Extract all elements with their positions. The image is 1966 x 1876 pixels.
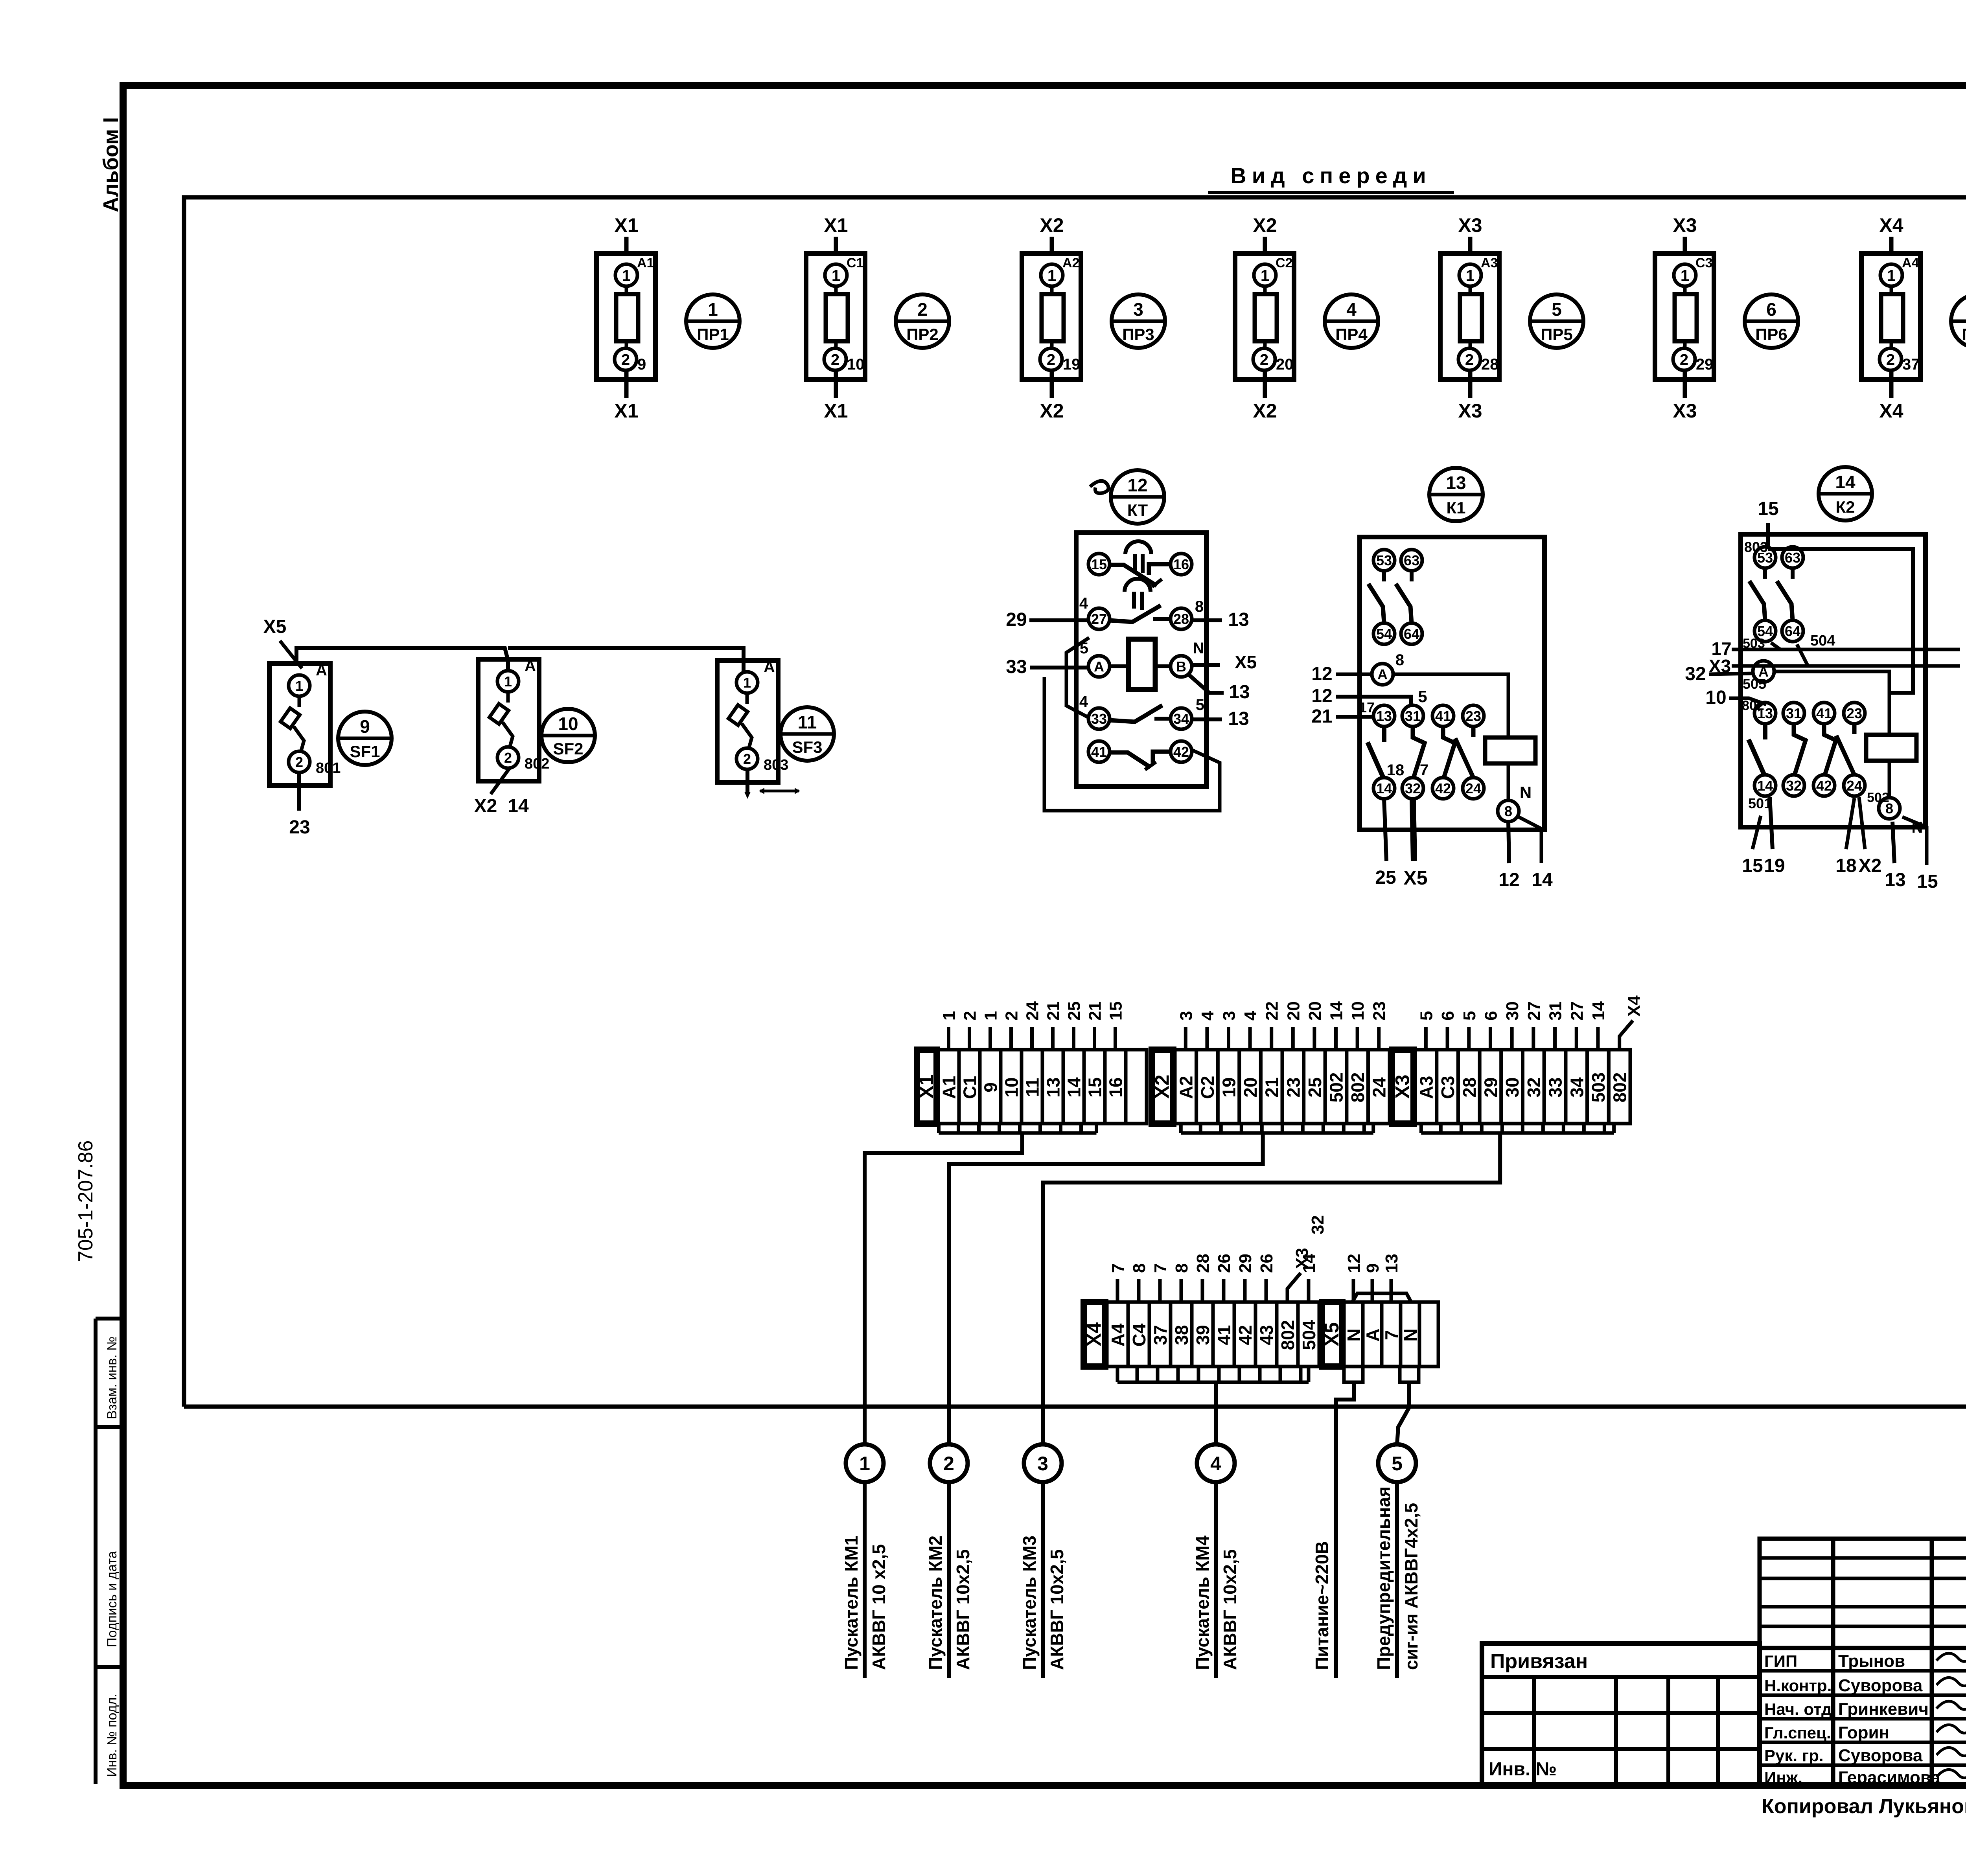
- svg-text:Альбом I: Альбом I: [99, 117, 123, 212]
- svg-text:21: 21: [1262, 1077, 1282, 1097]
- terminal strip X5 tab N: [1344, 1367, 1363, 1382]
- svg-text:23: 23: [1465, 708, 1481, 724]
- svg-text:X2: X2: [474, 796, 497, 817]
- terminal strip X2: [1151, 1001, 1390, 1124]
- svg-text:17: 17: [1359, 699, 1375, 715]
- svg-text:3: 3: [1220, 1011, 1239, 1021]
- svg-text:5: 5: [1392, 1453, 1403, 1475]
- wire 13 from KT pin 28: [1192, 618, 1222, 622]
- cable circle 2: [930, 1444, 968, 1482]
- svg-text:13: 13: [1376, 708, 1392, 724]
- svg-text:КТ: КТ: [1127, 501, 1148, 519]
- svg-text:21: 21: [1044, 1001, 1063, 1021]
- svg-text:14: 14: [1300, 1254, 1319, 1273]
- svg-text:24: 24: [1846, 778, 1862, 794]
- svg-text:14: 14: [1757, 778, 1773, 794]
- svg-text:9: 9: [360, 716, 370, 737]
- circuit breaker SF1: [269, 662, 341, 785]
- svg-text:6: 6: [1481, 1011, 1500, 1021]
- svg-text:64: 64: [1785, 623, 1800, 639]
- labels X2 14 under SF2: [474, 796, 529, 817]
- wire K2 pin 14 to 15 19: [1752, 797, 1773, 849]
- svg-text:11: 11: [798, 712, 817, 732]
- svg-text:Инв. № подл.: Инв. № подл.: [105, 1694, 120, 1777]
- svg-text:АКВВГ 10х2,5: АКВВГ 10х2,5: [1220, 1549, 1240, 1670]
- svg-text:24: 24: [1023, 1001, 1042, 1021]
- svg-text:29: 29: [1696, 356, 1714, 373]
- relay K2 body: [1741, 534, 1926, 827]
- terminal strip X5 tab 7-N: [1400, 1367, 1419, 1382]
- svg-text:37: 37: [1150, 1325, 1171, 1345]
- svg-text:12: 12: [1311, 664, 1332, 684]
- svg-text:X2: X2: [1859, 855, 1882, 876]
- svg-text:1: 1: [295, 678, 303, 694]
- svg-text:21: 21: [1086, 1001, 1105, 1021]
- KT contact 33-34: [1079, 693, 1204, 729]
- arrow symbol under SF3: [744, 788, 800, 799]
- wire 32 to K2 pin A: [1709, 673, 1754, 674]
- svg-text:29: 29: [1236, 1254, 1255, 1273]
- svg-text:803: 803: [1744, 539, 1768, 555]
- svg-text:N: N: [1520, 783, 1532, 802]
- svg-text:Вид спереди: Вид спереди: [1230, 163, 1431, 188]
- svg-text:23: 23: [289, 817, 310, 838]
- fuse ПР6: [1655, 214, 1714, 422]
- wire cable 5 from X5 tab 7N: [1397, 1382, 1409, 1444]
- svg-text:C3: C3: [1438, 1076, 1458, 1099]
- K2 stub 64 to wire: [1797, 644, 1808, 666]
- svg-text:Суворова: Суворова: [1838, 1746, 1923, 1765]
- svg-text:54: 54: [1376, 626, 1392, 642]
- svg-text:1: 1: [1681, 267, 1689, 284]
- svg-text:15: 15: [1917, 871, 1938, 892]
- svg-text:9: 9: [637, 356, 646, 373]
- svg-text:53: 53: [1376, 552, 1392, 568]
- svg-text:1: 1: [940, 1011, 959, 1021]
- svg-text:X4: X4: [1625, 995, 1644, 1017]
- cable 3 line and labels: [1019, 1482, 1067, 1678]
- fuse ПР7: [1861, 214, 1920, 422]
- svg-text:41: 41: [1091, 744, 1107, 760]
- svg-text:14: 14: [1532, 870, 1553, 890]
- svg-text:501: 501: [1748, 795, 1772, 811]
- svg-text:16: 16: [1173, 556, 1189, 572]
- svg-text:18: 18: [1387, 761, 1405, 779]
- svg-text:15: 15: [1742, 855, 1763, 876]
- svg-text:Гл.спец.: Гл.спец.: [1764, 1723, 1831, 1742]
- svg-text:К2: К2: [1836, 498, 1855, 516]
- svg-text:802: 802: [1742, 698, 1764, 713]
- svg-text:25: 25: [1065, 1001, 1084, 1021]
- wire SF2 to X2 14 with arrow: [491, 768, 510, 794]
- svg-text:ПР4: ПР4: [1335, 325, 1368, 344]
- fuse ПР4: [1235, 214, 1294, 422]
- svg-text:X1: X1: [824, 214, 848, 236]
- wire 21 to K1 pin 13: [1336, 715, 1373, 719]
- KT coil A-B: [1080, 639, 1204, 690]
- svg-text:Инж.: Инж.: [1764, 1768, 1802, 1787]
- svg-text:19: 19: [1219, 1077, 1239, 1097]
- svg-text:A3: A3: [1481, 256, 1498, 270]
- svg-text:23: 23: [1846, 705, 1862, 721]
- cable 4 line and labels: [1192, 1482, 1240, 1678]
- KT contact 27-28 timed: [1079, 579, 1204, 629]
- wire 12 to K1 pin 31: [1336, 697, 1411, 704]
- svg-text:30: 30: [1502, 1077, 1522, 1097]
- inner frame drawing area border: [184, 197, 1966, 1407]
- svg-text:33: 33: [1091, 711, 1107, 727]
- svg-text:37: 37: [1902, 356, 1920, 373]
- svg-text:X5: X5: [1321, 1322, 1343, 1346]
- wire 10 to K2 pin 13: [1729, 698, 1766, 704]
- svg-text:31: 31: [1786, 705, 1802, 721]
- svg-text:X5: X5: [1235, 652, 1257, 672]
- svg-text:Нач. отд: Нач. отд: [1764, 1700, 1832, 1718]
- svg-text:14: 14: [1376, 780, 1392, 796]
- fuse ПР3: [1022, 214, 1081, 422]
- svg-text:5: 5: [1460, 1011, 1479, 1021]
- wire K2 corner to 15 right: [1902, 817, 1927, 865]
- svg-text:X4: X4: [1879, 400, 1903, 422]
- wire stub under SF3: [746, 769, 749, 794]
- svg-text:A: A: [1094, 658, 1104, 675]
- svg-text:15: 15: [1106, 1001, 1126, 1021]
- svg-text:C2: C2: [1197, 1076, 1218, 1099]
- label circle 1/ПР1: [686, 294, 740, 348]
- wire bus segment to SF3: [508, 648, 744, 673]
- fuse ПР2: [806, 214, 865, 422]
- svg-text:705-1-207.86: 705-1-207.86: [74, 1140, 97, 1262]
- svg-text:14: 14: [1589, 1001, 1608, 1021]
- svg-text:18: 18: [1835, 855, 1856, 876]
- svg-text:2: 2: [917, 299, 928, 320]
- svg-text:21: 21: [1311, 706, 1332, 727]
- svg-text:Пускатель КМ1: Пускатель КМ1: [841, 1536, 862, 1670]
- svg-text:23: 23: [1370, 1001, 1389, 1021]
- terminal strip X2 jumper comb: [1181, 1124, 1373, 1133]
- svg-text:13: 13: [1382, 1254, 1401, 1273]
- terminal strip X3: [1392, 995, 1644, 1124]
- svg-text:сиг-ия АКВВГ4х2,5: сиг-ия АКВВГ4х2,5: [1401, 1503, 1421, 1670]
- cable circle 3: [1024, 1444, 1062, 1482]
- svg-text:Н.контр.: Н.контр.: [1764, 1676, 1832, 1695]
- svg-text:Горин: Горин: [1838, 1723, 1889, 1742]
- svg-text:22: 22: [1263, 1001, 1282, 1021]
- svg-text:502: 502: [1867, 790, 1889, 805]
- svg-text:20: 20: [1305, 1001, 1325, 1021]
- label circle 7/ПР7: [1951, 294, 1966, 348]
- svg-text:2: 2: [743, 751, 751, 767]
- svg-text:1: 1: [1887, 267, 1896, 284]
- label circle 10/SF2: [541, 709, 595, 762]
- wire K2 coil to 13: [1892, 822, 1894, 863]
- svg-text:9: 9: [1363, 1264, 1382, 1273]
- KT contact 41-42: [1088, 741, 1192, 770]
- terminal strip X4: [1083, 1248, 1320, 1367]
- terminal strip X3 jumper comb: [1421, 1124, 1614, 1133]
- jumper bracket over X5 cells: [1352, 1293, 1411, 1302]
- node X5 label with arrow: [263, 616, 302, 668]
- svg-text:X2: X2: [1040, 400, 1064, 422]
- svg-text:ГИП: ГИП: [1764, 1652, 1797, 1670]
- svg-text:26: 26: [1215, 1254, 1234, 1273]
- svg-text:1: 1: [1466, 267, 1474, 284]
- svg-text:1: 1: [504, 673, 512, 690]
- svg-text:14: 14: [508, 796, 529, 817]
- svg-text:504: 504: [1810, 633, 1835, 649]
- svg-text:ПР6: ПР6: [1755, 325, 1787, 344]
- svg-text:A: A: [1362, 1328, 1383, 1341]
- svg-text:2: 2: [295, 754, 303, 770]
- svg-text:ПР5: ПР5: [1541, 325, 1573, 344]
- svg-text:19: 19: [1063, 356, 1081, 373]
- svg-text:32: 32: [1685, 664, 1706, 684]
- svg-text:41: 41: [1435, 708, 1451, 724]
- svg-text:8: 8: [1504, 803, 1512, 819]
- svg-text:A: A: [1377, 666, 1388, 682]
- svg-text:32: 32: [1405, 780, 1421, 796]
- wire bus X5 to SF1 SF2 SF3 tops: [296, 648, 508, 672]
- svg-text:A1: A1: [637, 256, 654, 270]
- svg-text:SF1: SF1: [350, 742, 380, 761]
- svg-text:25: 25: [1305, 1077, 1325, 1097]
- svg-text:A2: A2: [1062, 256, 1079, 270]
- svg-text:13: 13: [1229, 682, 1250, 703]
- svg-text:63: 63: [1785, 550, 1800, 566]
- wire K1 coil to 12: [1508, 822, 1509, 863]
- svg-text:Взам. инв. №: Взам. инв. №: [105, 1336, 120, 1419]
- svg-text:A3: A3: [1416, 1076, 1436, 1099]
- svg-text:12: 12: [1311, 686, 1332, 706]
- svg-text:АКВВГ 10х2,5: АКВВГ 10х2,5: [1047, 1549, 1067, 1670]
- svg-text:2: 2: [831, 351, 839, 368]
- svg-text:13: 13: [1043, 1077, 1064, 1097]
- svg-text:12: 12: [1344, 1254, 1364, 1273]
- wire 17 to K2 pin 54 line to 16: [1732, 648, 1960, 651]
- svg-text:13: 13: [1228, 609, 1249, 630]
- inner frame bottom edge: [184, 1405, 1966, 1409]
- svg-text:Трынов: Трынов: [1838, 1652, 1905, 1671]
- fuse ПР5: [1440, 214, 1499, 422]
- svg-text:42: 42: [1816, 778, 1832, 794]
- svg-text:Привязан: Привязан: [1490, 1650, 1588, 1673]
- title block Привязан box: [1482, 1644, 1760, 1786]
- svg-text:A: A: [316, 662, 327, 679]
- svg-text:Подпись и дата: Подпись и дата: [105, 1551, 120, 1647]
- label circle 11/SF3: [781, 707, 834, 761]
- svg-text:Суворова: Суворова: [1838, 1676, 1923, 1695]
- svg-text:12: 12: [1498, 870, 1519, 890]
- svg-text:41: 41: [1816, 705, 1832, 721]
- svg-text:C4: C4: [1129, 1323, 1149, 1346]
- svg-text:X5: X5: [263, 616, 287, 637]
- svg-text:2: 2: [1680, 351, 1688, 368]
- svg-text:38: 38: [1171, 1325, 1192, 1345]
- K2 inner wire from 53 to right side: [1768, 549, 1913, 693]
- svg-text:4: 4: [1210, 1453, 1221, 1475]
- wire cable 4 from X4 comb: [1214, 1382, 1218, 1444]
- label circle 4/ПР4: [1325, 294, 1378, 348]
- label circle 12/KT: [1090, 470, 1164, 524]
- svg-text:7: 7: [1420, 761, 1428, 779]
- svg-text:1: 1: [1261, 267, 1269, 284]
- wire 29 to KT pin 27: [1029, 618, 1088, 622]
- svg-text:4: 4: [1079, 595, 1088, 612]
- svg-text:29: 29: [1480, 1077, 1501, 1097]
- time relay KT body: [1076, 533, 1206, 787]
- svg-text:802: 802: [1278, 1320, 1298, 1350]
- wire K1 pin 32 to X5: [1413, 799, 1414, 861]
- svg-text:28: 28: [1459, 1077, 1480, 1097]
- label circle 6/ПР6: [1745, 294, 1798, 348]
- wire X5 from KT pin B: [1192, 663, 1220, 667]
- relay K1 body: [1360, 537, 1544, 830]
- svg-text:24: 24: [1369, 1077, 1390, 1098]
- svg-text:503: 503: [1743, 636, 1765, 651]
- svg-text:39: 39: [1193, 1325, 1213, 1345]
- svg-text:15: 15: [1091, 556, 1107, 572]
- svg-text:Пускатель КМ3: Пускатель КМ3: [1019, 1536, 1040, 1670]
- svg-text:63: 63: [1404, 552, 1419, 568]
- KT outer wire loop left: [1066, 638, 1089, 718]
- svg-text:Питание~220В: Питание~220В: [1312, 1541, 1332, 1670]
- wire cable 1 from X1 cell 11: [865, 1133, 1022, 1444]
- svg-text:2: 2: [1002, 1011, 1022, 1021]
- svg-text:802: 802: [1610, 1072, 1630, 1103]
- svg-text:2: 2: [1886, 351, 1895, 368]
- svg-text:N: N: [1344, 1328, 1364, 1341]
- svg-text:42: 42: [1173, 744, 1189, 760]
- svg-text:ПР3: ПР3: [1122, 325, 1154, 344]
- svg-text:N: N: [1912, 819, 1923, 836]
- cable circle 4: [1197, 1444, 1235, 1482]
- svg-text:42: 42: [1235, 1325, 1255, 1345]
- svg-text:14: 14: [1064, 1077, 1084, 1098]
- svg-text:2: 2: [1047, 351, 1055, 368]
- svg-text:X2: X2: [1040, 214, 1064, 236]
- svg-text:A: A: [764, 658, 775, 676]
- svg-text:ПР2: ПР2: [906, 325, 939, 344]
- svg-text:1: 1: [743, 675, 751, 691]
- svg-text:10: 10: [1001, 1077, 1022, 1097]
- svg-text:X5: X5: [1403, 867, 1427, 889]
- svg-text:13: 13: [1885, 870, 1905, 890]
- svg-text:14: 14: [1835, 472, 1856, 492]
- circuit breaker SF2: [478, 657, 549, 781]
- svg-text:16: 16: [1106, 1077, 1126, 1097]
- svg-text:802: 802: [1347, 1072, 1368, 1103]
- svg-text:41: 41: [1214, 1325, 1234, 1345]
- svg-text:4: 4: [1198, 1011, 1217, 1021]
- cable circle 5: [1378, 1444, 1416, 1482]
- wire 33 to KT pin A: [1030, 666, 1088, 669]
- svg-text:X3: X3: [1458, 400, 1482, 422]
- svg-text:20: 20: [1284, 1001, 1303, 1021]
- wire cable power from X5 tab N: [1336, 1382, 1354, 1678]
- svg-text:К1: К1: [1447, 498, 1466, 517]
- svg-text:X1: X1: [614, 214, 638, 236]
- svg-text:7: 7: [1108, 1264, 1128, 1273]
- svg-text:8: 8: [1395, 651, 1404, 669]
- svg-text:29: 29: [1006, 609, 1027, 630]
- KT outer wire loop bottom: [1044, 677, 1220, 811]
- svg-text:A4: A4: [1108, 1323, 1128, 1346]
- wire 13 from KT pin 34: [1192, 717, 1222, 721]
- svg-text:5: 5: [1418, 687, 1427, 706]
- svg-text:1: 1: [622, 267, 631, 284]
- svg-text:A4: A4: [1902, 256, 1919, 270]
- svg-text:1: 1: [708, 299, 718, 320]
- svg-text:33: 33: [1545, 1077, 1566, 1097]
- svg-text:4: 4: [1346, 299, 1357, 320]
- svg-text:X3: X3: [1673, 400, 1697, 422]
- svg-text:34: 34: [1567, 1077, 1587, 1098]
- svg-text:27: 27: [1091, 611, 1107, 627]
- svg-text:27: 27: [1567, 1001, 1587, 1021]
- svg-text:24: 24: [1465, 780, 1481, 796]
- label circle 5/ПР5: [1530, 294, 1583, 348]
- wire 13 from KT pin B diagonal: [1188, 674, 1224, 693]
- svg-text:801: 801: [316, 760, 341, 776]
- svg-text:X3: X3: [1673, 214, 1697, 236]
- svg-text:3: 3: [1037, 1453, 1048, 1475]
- svg-text:505: 505: [1743, 676, 1766, 692]
- label circle 2/ПР2: [896, 294, 949, 348]
- label circle 9/SF1: [338, 712, 392, 765]
- svg-text:20: 20: [1240, 1077, 1261, 1097]
- svg-text:5: 5: [1417, 1011, 1436, 1021]
- svg-text:X2: X2: [1253, 400, 1277, 422]
- svg-text:20: 20: [1276, 356, 1294, 373]
- svg-text:12: 12: [1127, 475, 1147, 495]
- svg-text:2: 2: [504, 750, 512, 766]
- svg-text:503: 503: [1588, 1072, 1609, 1103]
- svg-text:X2: X2: [1253, 214, 1277, 236]
- svg-text:АКВВГ 10 х2,5: АКВВГ 10 х2,5: [869, 1544, 889, 1670]
- svg-text:X4: X4: [1083, 1322, 1105, 1346]
- cable 5 line and labels: [1373, 1482, 1421, 1678]
- svg-text:10: 10: [558, 714, 578, 734]
- svg-text:803: 803: [764, 757, 788, 773]
- svg-text:3: 3: [1133, 299, 1143, 320]
- svg-text:64: 64: [1404, 626, 1419, 642]
- svg-text:33: 33: [1006, 657, 1027, 677]
- svg-text:Пускатель КМ2: Пускатель КМ2: [925, 1536, 946, 1670]
- wire SF1 to 23: [297, 772, 301, 811]
- svg-text:27: 27: [1524, 1001, 1544, 1021]
- K2 stub 54 to wire: [1771, 643, 1780, 649]
- wire X3 to K2 line to X4: [1732, 664, 1960, 668]
- svg-text:SF3: SF3: [792, 738, 822, 756]
- cable 2 line and labels: [925, 1482, 973, 1678]
- svg-text:N: N: [1400, 1328, 1421, 1341]
- svg-text:2: 2: [961, 1011, 980, 1021]
- svg-text:Рук. гр.: Рук. гр.: [1764, 1746, 1824, 1765]
- svg-text:28: 28: [1173, 611, 1189, 627]
- svg-text:14: 14: [1327, 1001, 1346, 1021]
- terminal strip X5: [1321, 1254, 1438, 1367]
- svg-text:6: 6: [1766, 299, 1776, 320]
- svg-text:Герасимова: Герасимова: [1838, 1768, 1940, 1787]
- svg-text:Предупредительная: Предупредительная: [1373, 1486, 1394, 1670]
- svg-text:3: 3: [1176, 1011, 1196, 1021]
- svg-text:A1: A1: [939, 1076, 959, 1099]
- svg-text:X1: X1: [824, 400, 848, 422]
- svg-text:32: 32: [1308, 1215, 1327, 1234]
- svg-text:28: 28: [1481, 356, 1499, 373]
- svg-text:31: 31: [1405, 708, 1421, 724]
- svg-text:23: 23: [1283, 1077, 1303, 1097]
